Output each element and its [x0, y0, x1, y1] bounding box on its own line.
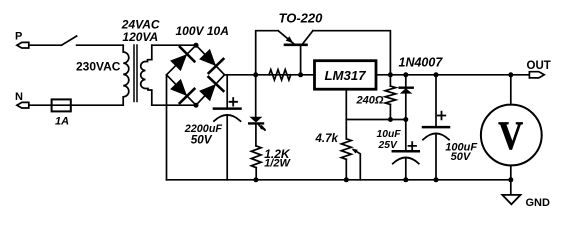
svg-text:TO-220: TO-220 [279, 11, 324, 26]
capacitor C2 plus sign [409, 142, 417, 150]
potentiometer R4 4.7k zigzag [341, 139, 351, 160]
LM317 ADJ pin wire [345, 89, 347, 138]
bridge diode D3 bottom-left [170, 79, 194, 103]
transformer T1 core [134, 45, 137, 102]
svg-text:240Ω: 240Ω [356, 94, 384, 106]
junction base on rail [298, 72, 303, 77]
wire LM317 output rail [377, 74, 530, 76]
bridge diode D2 top-right [199, 49, 223, 73]
svg-text:OUT: OUT [527, 60, 551, 72]
wire ADJ node horizontal [346, 119, 406, 121]
resistor R3 240 ohm wire top [389, 75, 391, 86]
wire positive rail bridge to LM317 [225, 74, 315, 76]
terminal OUT [529, 72, 544, 78]
svg-text:1A: 1A [55, 116, 69, 128]
wire voltmeter to ground rail [510, 165, 512, 179]
LED D5 light arrows [259, 125, 266, 132]
wire ground rail [167, 179, 511, 181]
LED D5 cathode bar [249, 122, 263, 124]
fuse F1 wire through [51, 104, 71, 106]
junction bridge AC bottom [194, 103, 199, 108]
svg-text:V: V [498, 113, 523, 158]
svg-text:GND: GND [526, 197, 551, 209]
transformer T1 secondary winding [141, 45, 152, 105]
wire rail up to transistor emitter [256, 31, 278, 75]
resistor R1 horizontal zigzag [269, 70, 291, 80]
wire rail to voltmeter [510, 75, 512, 105]
wire resistor R2 to ground rail [255, 168, 257, 180]
svg-text:100V 10A: 100V 10A [176, 24, 229, 38]
svg-text:230VAC: 230VAC [76, 60, 121, 74]
wire P to switch [29, 44, 62, 46]
wire base to rail junction [300, 46, 302, 75]
wire collector to output rail [313, 31, 391, 75]
svg-text:10uF: 10uF [377, 129, 402, 140]
capacitor C3 wire bottom [435, 134, 437, 180]
wire secondary bottom to bridge [152, 104, 196, 106]
terminal P [17, 42, 29, 48]
capacitor C3 plus sign [438, 112, 446, 120]
capacitor C1 plus sign [230, 98, 238, 106]
capacitor C2 wire bottom [405, 158, 407, 180]
potentiometer R4 wiper arrow [354, 150, 361, 180]
junction voltmeter ground [508, 177, 513, 182]
junction collector and 240ohm on output rail [388, 72, 393, 77]
svg-text:4.7k: 4.7k [315, 133, 339, 145]
wire R3 to ADJ node [389, 105, 391, 120]
resistor R3 240 ohm zigzag [385, 86, 396, 104]
transistor Q1 collector [303, 31, 313, 44]
wire to ground symbol [510, 180, 512, 195]
diode D6 1N4007 cathode bar [400, 86, 413, 88]
capacitor C2 plates [393, 150, 419, 153]
capacitor C3 100uF wire top [435, 75, 437, 127]
ground symbol [502, 195, 520, 204]
junction bridge AC top [194, 43, 199, 48]
switch S [62, 36, 77, 45]
junction diode/cap ADJ node [403, 117, 408, 122]
svg-text:LM317: LM317 [325, 68, 367, 83]
bridge rectifier B1 diamond [167, 45, 225, 105]
terminal N [17, 102, 29, 108]
wire rail to LED [255, 75, 257, 117]
wire switch to transformer primary [77, 44, 124, 46]
bridge diode D4 bottom-right [199, 77, 223, 101]
transformer T1 primary winding [123, 45, 129, 105]
junction LED branch on positive rail [253, 72, 258, 77]
wire N to fuse [29, 104, 52, 106]
capacitor C3 plates [423, 126, 449, 129]
junction R4 ground [344, 177, 349, 182]
svg-text:1/2W: 1/2W [264, 157, 291, 169]
junction C2 ground [403, 177, 408, 182]
svg-text:50V: 50V [451, 151, 472, 163]
resistor R2 1.2K zigzag [251, 146, 261, 168]
LED D5 triangle [249, 117, 262, 123]
wire secondary top to bridge [152, 44, 196, 46]
wire fuse to transformer primary [71, 104, 123, 106]
junction R3 ADJ node [388, 117, 393, 122]
junction diode D6 on output rail [403, 72, 408, 77]
wire LED to resistor R2 [255, 123, 257, 145]
capacitor C1 2200uF plates [214, 107, 241, 110]
transistor Q1 emitter with arrow [278, 31, 294, 44]
svg-text:50V: 50V [191, 133, 213, 146]
svg-text:P: P [15, 31, 22, 43]
bridge diode D1 top-left [170, 47, 194, 71]
wire D6 to ADJ node [405, 94, 407, 120]
regulator U1 LM317 box [315, 61, 377, 89]
junction C3 on output rail [434, 72, 439, 77]
junction voltmeter on output rail [508, 72, 513, 77]
svg-text:120VA: 120VA [122, 30, 158, 44]
capacitor C2 10uF wire top [405, 120, 407, 152]
fuse F1 body [52, 99, 71, 111]
junction R2 ground [253, 177, 258, 182]
diode D6 1N4007 wire top [405, 75, 407, 88]
transistor Q1 base bar [285, 43, 307, 46]
junction C3 ground [434, 177, 439, 182]
svg-text:N: N [15, 91, 23, 103]
diode D6 1N4007 triangle [400, 88, 413, 93]
wire R4 bottom to ground rail [345, 159, 347, 180]
voltmeter M1 circle [481, 105, 542, 166]
svg-text:25V: 25V [378, 140, 398, 151]
svg-text:1N4007: 1N4007 [399, 56, 444, 70]
wire bridge negative down to ground rail [166, 75, 168, 180]
capacitor C1 wire bottom [226, 115, 228, 180]
capacitor C1 2200uF branch wire top [226, 75, 228, 109]
